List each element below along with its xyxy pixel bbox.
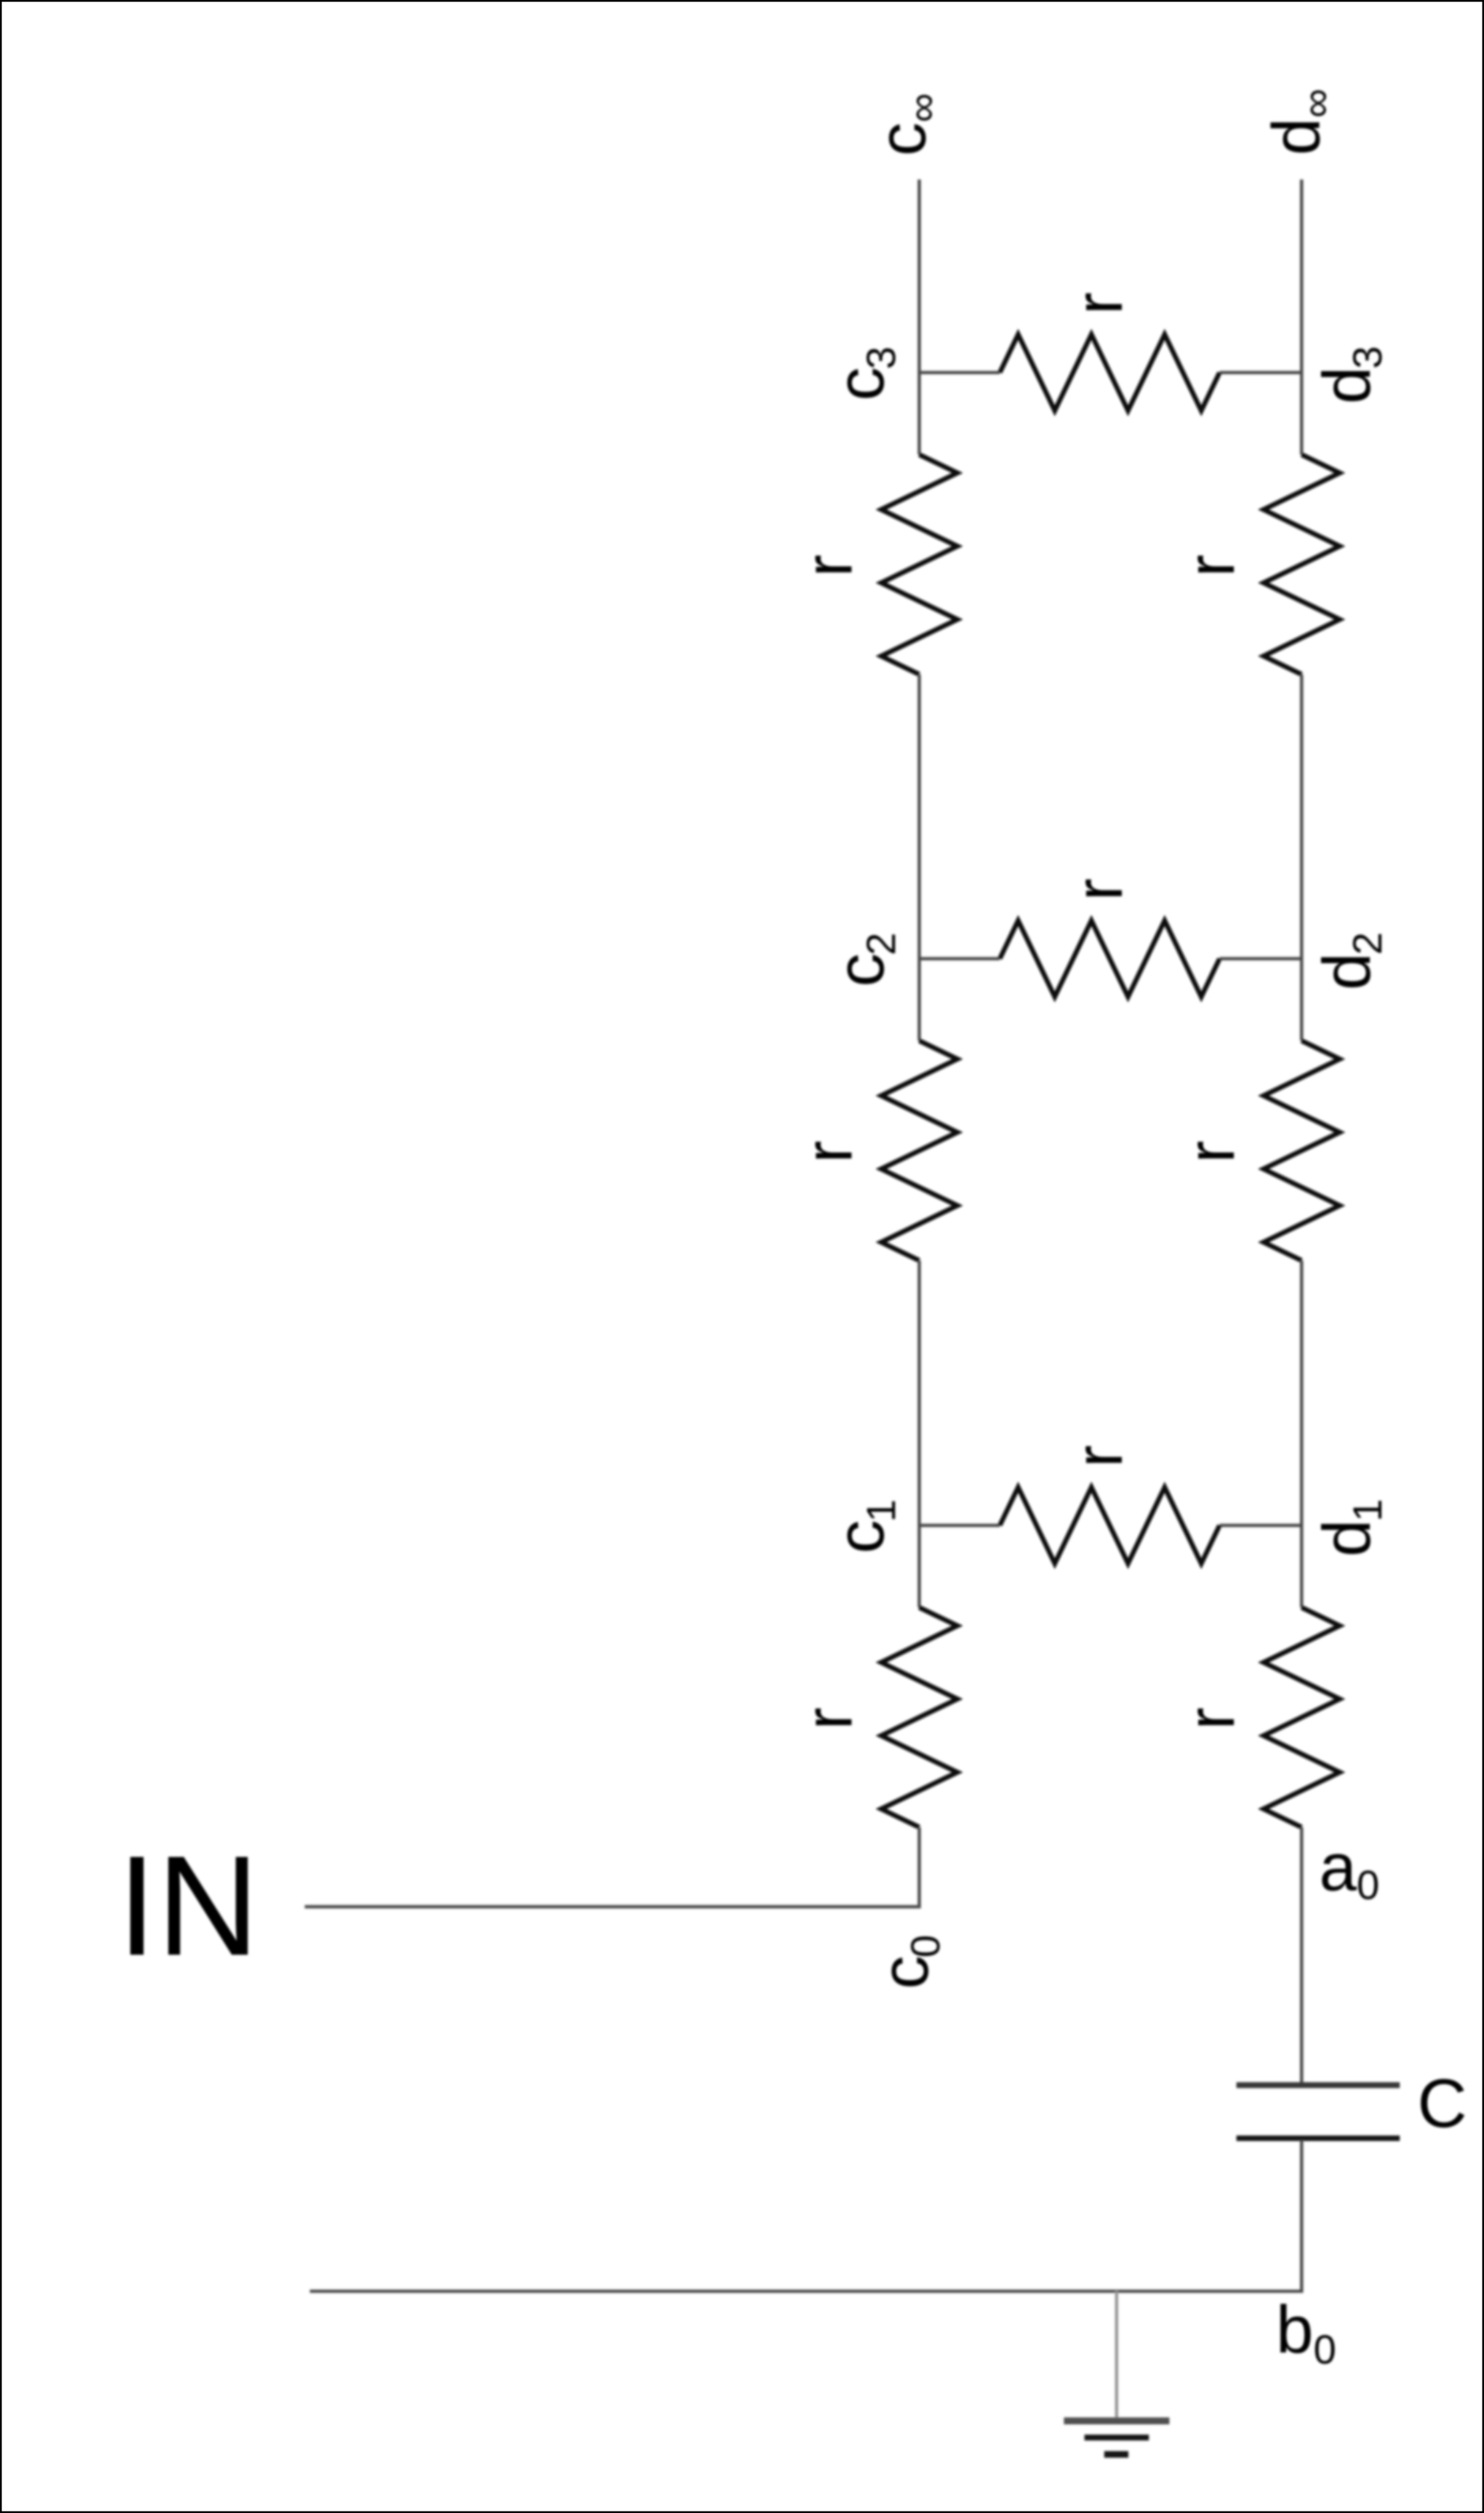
- capacitor C bottom plate: [1236, 2136, 1400, 2142]
- resistor r (c2-d2): [1000, 921, 1220, 997]
- wire a0 node to capacitor top: [1300, 1827, 1303, 2084]
- wire horizontal resistor R3 to d3 junction: [1220, 371, 1302, 374]
- resistor r (c3-c2): [881, 455, 957, 675]
- svg-text:r: r: [792, 555, 867, 577]
- resistor r (c1-c0): [881, 1607, 957, 1827]
- svg-text:r: r: [1174, 1141, 1249, 1163]
- wire d3 to vertical resistor lead: [1300, 373, 1303, 455]
- wire d1 to vertical resistor lead: [1300, 1525, 1303, 1607]
- resistor r (d3-d2): [1264, 455, 1340, 675]
- wire vertical resistor to c2: [918, 675, 921, 959]
- wire c3 junction to horizontal resistor R3: [919, 371, 1000, 374]
- svg-text:r: r: [792, 1141, 867, 1163]
- wire vertical resistor to d2: [1300, 675, 1303, 959]
- wire resistor to c0 corner and IN wire: [305, 1827, 919, 1907]
- ground bar 2: [1085, 2435, 1149, 2440]
- ground bar 3: [1105, 2451, 1129, 2458]
- svg-text:r: r: [1174, 555, 1249, 577]
- wire vertical resistor to d1: [1300, 1261, 1303, 1526]
- resistor r (d1-a0): [1264, 1607, 1340, 1827]
- wire c2 junction to horizontal resistor R2: [919, 957, 1000, 960]
- resistor r (d2-d1): [1264, 1041, 1340, 1261]
- svg-text:r: r: [792, 1707, 867, 1730]
- node c_inf top lead wire: [918, 179, 921, 373]
- wire c1 junction to horizontal resistor R1: [919, 1524, 1000, 1527]
- svg-text:r: r: [1062, 878, 1137, 901]
- wire c1 to vertical resistor lead: [918, 1525, 921, 1607]
- wire vertical resistor to c1: [918, 1261, 921, 1526]
- svg-text:IN: IN: [117, 1827, 259, 1985]
- wire c2 to vertical resistor lead: [918, 959, 921, 1041]
- resistor r (c3-d3): [1000, 335, 1220, 411]
- capacitor C top plate: [1236, 2082, 1400, 2088]
- svg-text:r: r: [1174, 1707, 1249, 1730]
- svg-text:r: r: [1062, 1445, 1137, 1468]
- wire c3 to vertical resistor lead: [918, 373, 921, 455]
- wire capacitor bottom to b0 corner and bottom rail to left: [310, 2140, 1302, 2291]
- ground stem wire: [1115, 2291, 1118, 2421]
- node d_inf top lead wire: [1300, 179, 1303, 373]
- wire horizontal resistor R2 to d2 junction: [1220, 957, 1302, 960]
- svg-text:r: r: [1062, 292, 1137, 315]
- resistor r (c2-c1): [881, 1041, 957, 1261]
- wire horizontal resistor R1 to d1 junction: [1220, 1524, 1302, 1527]
- svg-text:C: C: [1417, 2065, 1467, 2142]
- wire d2 to vertical resistor lead: [1300, 959, 1303, 1041]
- ground bar 1: [1064, 2418, 1170, 2425]
- resistor r (c1-d1): [1000, 1487, 1220, 1563]
